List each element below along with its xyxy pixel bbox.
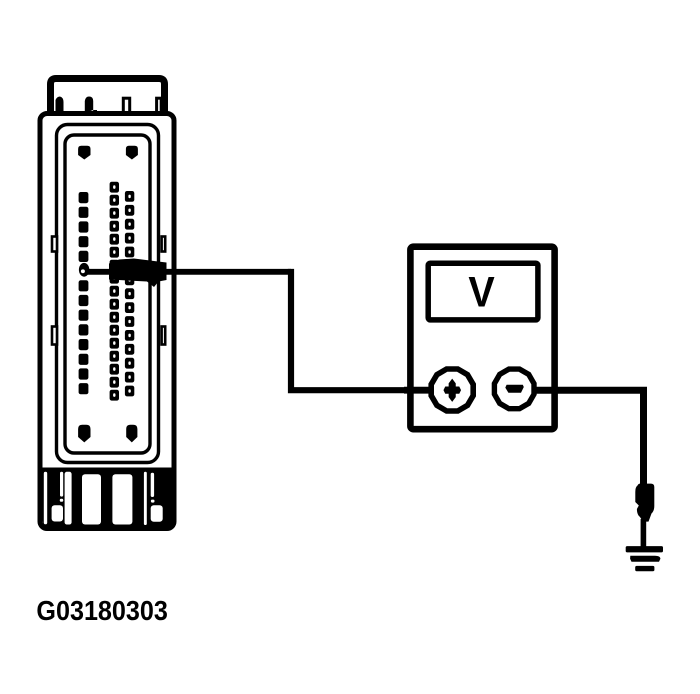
lock slot 7 (short) — [151, 473, 154, 497]
connector J1 pin column C — [125, 191, 134, 396]
connector J1 cap tab 2 — [85, 97, 97, 114]
wire W4 short drop to ground — [641, 519, 647, 548]
connector J1 index hole bottom-right — [126, 425, 137, 443]
lock slot 6 — [144, 472, 147, 525]
connector J1 index hole bottom-left — [78, 425, 90, 443]
voltmeter M1 body — [410, 247, 554, 430]
connector J1 inner cavity outline — [65, 135, 150, 453]
connector J1 outer body — [40, 114, 174, 529]
connector J1 shell side tab upper-left — [52, 237, 57, 252]
connector J1 bottom lock section (black band) — [43, 468, 174, 529]
connector J1 shell side tab upper-right — [162, 237, 166, 252]
connector J1 index hole top-right — [126, 146, 138, 160]
lock slot 4 (wide) — [82, 474, 101, 524]
connector J1 pin column B — [110, 182, 119, 401]
lock window right — [151, 505, 163, 521]
connector J1 cap tab 1 — [56, 97, 64, 114]
connector J1 pin column A — [79, 192, 89, 394]
connector J1 shell side tab lower-left — [52, 327, 57, 345]
lock slot 2 (short) — [60, 472, 63, 497]
lock window left — [52, 505, 63, 521]
plus symbol — [444, 380, 460, 401]
voltmeter + terminal — [431, 369, 473, 411]
test probe tip blob — [109, 259, 167, 288]
ground G1 symbol — [626, 546, 663, 571]
voltmeter M1 display window — [428, 263, 538, 320]
lock slot 3 — [65, 472, 72, 525]
lock slot 1 — [44, 472, 47, 525]
lock slot 5 (wide) — [112, 474, 132, 524]
wire W2 vertical drop to voltmeter — [291, 269, 429, 390]
wire W1 from test pin to bend — [84, 269, 291, 275]
connector J1 middle shell outline — [57, 125, 159, 463]
voltmeter - terminal — [494, 369, 534, 409]
connector J1 cap tab 3 — [123, 98, 129, 114]
wire stub into + terminal — [404, 387, 432, 394]
svg-text:V: V — [468, 268, 495, 316]
connector J1 index hole top-left — [78, 146, 90, 160]
connector J1 top cap — [51, 79, 165, 117]
inline bullet terminal on ground wire — [635, 484, 654, 522]
connector J1 shell side tab lower-right — [162, 327, 166, 345]
wire W3 from - terminal to ground drop — [536, 390, 644, 486]
probe ring contact at connector pin A6 — [79, 263, 89, 277]
connector J1 cap tab 4 — [157, 98, 162, 114]
svg-text:G03180303: G03180303 — [36, 594, 167, 626]
minus symbol — [505, 385, 524, 393]
